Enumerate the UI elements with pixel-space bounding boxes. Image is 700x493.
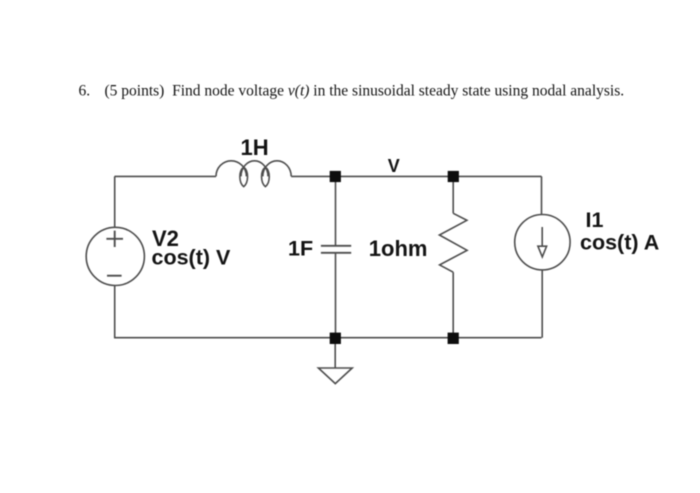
wire top-middle segment (291, 175, 541, 177)
svg-text:cos(t) V: cos(t) V (152, 246, 232, 270)
svg-text:V: V (388, 156, 400, 176)
svg-text:(5 points) Find node voltage: (5 points) Find node voltage v(t) in the… (105, 83, 625, 100)
inductor L1 coil hump 3 (263, 161, 291, 177)
wire left vertical lower (114, 286, 116, 338)
wire bottom segment (114, 337, 542, 339)
svg-text:1ohm: 1ohm (369, 236, 428, 261)
node junction square bottom-left (330, 333, 341, 344)
wire left vertical upper (114, 176, 116, 227)
voltage source V2 circle (86, 227, 144, 285)
wire capacitor branch lower (335, 254, 337, 339)
wire right vertical upper (541, 176, 543, 214)
wire resistor branch lower (452, 272, 454, 338)
svg-text:1H: 1H (241, 135, 269, 160)
wire capacitor branch upper (335, 176, 337, 245)
current source I1 circle (515, 215, 570, 270)
svg-text:1F: 1F (288, 236, 313, 260)
inductor L1 coil hump 2 (241, 161, 268, 177)
inductor L1 coil hump 1 (216, 161, 246, 177)
voltage source V2 minus sign (107, 275, 122, 277)
capacitor C1 bottom plate (321, 252, 351, 254)
resistor R1 zigzag (439, 213, 467, 272)
wire ground stem (334, 338, 336, 368)
node junction square top-right (node V right) (448, 171, 459, 182)
voltage source V2 plus sign (106, 231, 123, 247)
ground symbol triangle (318, 368, 352, 384)
wire top-left segment (115, 175, 217, 177)
current source I1 arrowhead (538, 246, 547, 257)
inductor L1 loop 1 (240, 167, 248, 186)
capacitor C1 top plate (321, 245, 351, 247)
svg-text:6.: 6. (79, 83, 91, 100)
inductor L1 loop 2 (262, 167, 270, 186)
svg-text:I1: I1 (586, 208, 604, 232)
wire right vertical lower (541, 270, 543, 338)
wire resistor branch upper (452, 176, 454, 213)
node junction square bottom-right (448, 333, 459, 344)
svg-text:cos(t) A: cos(t) A (580, 231, 659, 255)
current source I1 arrow shaft (541, 227, 543, 247)
node junction square top-left (node V left) (330, 171, 341, 182)
